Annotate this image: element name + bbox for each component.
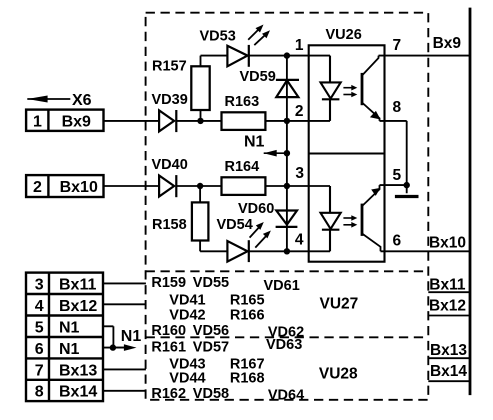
svg-text:2: 2: [295, 103, 304, 120]
svg-text:VD61: VD61: [264, 278, 300, 294]
svg-text:1: 1: [295, 37, 304, 54]
svg-text:7: 7: [393, 37, 402, 54]
svg-text:5: 5: [35, 319, 44, 336]
svg-text:VD42: VD42: [169, 308, 205, 324]
svg-text:VD63: VD63: [266, 337, 302, 353]
svg-text:VU26: VU26: [326, 27, 362, 43]
svg-text:Bx14: Bx14: [430, 363, 467, 380]
svg-text:Bx12: Bx12: [59, 298, 97, 315]
svg-text:5: 5: [393, 167, 402, 184]
svg-text:VD40: VD40: [152, 157, 188, 173]
svg-text:Bx13: Bx13: [430, 342, 467, 359]
svg-text:R158: R158: [152, 217, 187, 233]
svg-text:N1: N1: [59, 319, 80, 336]
svg-text:VD60: VD60: [238, 201, 274, 217]
svg-text:VD58: VD58: [193, 386, 229, 402]
svg-text:R168: R168: [230, 370, 265, 386]
svg-text:VD57: VD57: [193, 339, 229, 355]
svg-text:R164: R164: [225, 159, 260, 175]
svg-text:X6: X6: [72, 92, 92, 109]
svg-text:Bx11: Bx11: [429, 276, 466, 293]
svg-text:VD53: VD53: [200, 29, 236, 45]
svg-text:Bx10: Bx10: [429, 234, 466, 251]
svg-text:VU28: VU28: [319, 366, 358, 383]
svg-text:N1: N1: [121, 328, 142, 345]
svg-text:N1: N1: [59, 341, 80, 358]
svg-text:6: 6: [35, 341, 44, 358]
svg-text:N1: N1: [244, 133, 265, 150]
svg-text:VD56: VD56: [193, 323, 229, 339]
svg-text:R159: R159: [151, 275, 186, 291]
svg-text:VD59: VD59: [240, 69, 276, 85]
svg-text:7: 7: [35, 362, 44, 379]
svg-text:VD41: VD41: [169, 293, 205, 309]
svg-text:R157: R157: [152, 59, 187, 75]
svg-text:R165: R165: [230, 293, 265, 309]
svg-text:2: 2: [33, 179, 42, 196]
svg-text:3: 3: [295, 165, 304, 182]
svg-text:4: 4: [35, 298, 44, 315]
svg-text:R163: R163: [225, 94, 260, 110]
svg-text:Bx14: Bx14: [59, 384, 97, 401]
svg-text:Bx9: Bx9: [433, 35, 462, 52]
svg-text:Bx13: Bx13: [59, 362, 97, 379]
svg-text:8: 8: [35, 384, 44, 401]
svg-text:R160: R160: [151, 323, 186, 339]
svg-text:R166: R166: [230, 308, 265, 324]
svg-text:VD54: VD54: [217, 217, 253, 233]
svg-text:1: 1: [33, 113, 42, 130]
svg-text:Bx9: Bx9: [62, 113, 91, 130]
svg-text:R162: R162: [151, 386, 186, 402]
svg-text:3: 3: [35, 277, 44, 294]
svg-text:VD39: VD39: [152, 92, 188, 108]
svg-text:4: 4: [295, 232, 304, 249]
svg-text:R161: R161: [151, 339, 186, 355]
svg-text:VU27: VU27: [320, 296, 359, 313]
svg-text:VD64: VD64: [268, 388, 304, 404]
svg-text:Bx11: Bx11: [59, 277, 96, 294]
svg-text:Bx12: Bx12: [429, 298, 466, 315]
svg-text:Bx10: Bx10: [60, 179, 98, 196]
svg-text:VD55: VD55: [193, 275, 229, 291]
svg-text:VD44: VD44: [169, 370, 205, 386]
svg-text:8: 8: [393, 99, 402, 116]
svg-text:6: 6: [393, 233, 402, 250]
